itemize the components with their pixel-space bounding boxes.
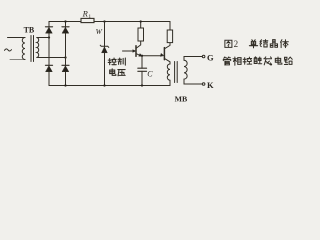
resistor R3 body (167, 30, 172, 43)
resistor R1 body (81, 18, 94, 22)
wire secondary to G terminal (184, 57, 202, 61)
transformer TB primary winding (22, 38, 25, 60)
terminal K circle (202, 83, 205, 86)
svg-text:2: 2 (234, 39, 239, 49)
node capacitor bottom rail dot (141, 84, 143, 86)
node emitter/capacitor junction dot (141, 55, 143, 57)
node top rail / right branch dot (64, 20, 66, 22)
wire R3 to top rail corner (169, 22, 171, 31)
diode D1 upper-left (45, 27, 52, 33)
wire top rail (49, 21, 170, 23)
diode D4 lower-right (62, 65, 69, 71)
capacitor C stem bottom (141, 71, 143, 85)
svg-text:K: K (207, 80, 214, 90)
label control voltage 电压 (110, 69, 126, 76)
capacitor C stem top (141, 56, 143, 68)
label control voltage 控制 (108, 58, 125, 65)
figure caption line 1: 图2 单结晶体 (223, 39, 292, 65)
figure caption line 2: 管相控触发电路 (223, 57, 231, 65)
node zener branch top dot (103, 20, 105, 22)
svg-text:C: C (147, 69, 153, 78)
control voltage arrow to base (123, 50, 134, 52)
node AC1 junction dot (48, 36, 50, 38)
transistor V emitter with arrow (136, 54, 141, 56)
UJT V2 bar (163, 48, 165, 60)
AC source tilde (5, 49, 12, 51)
wire zener branch (104, 22, 106, 86)
wire secondary to K terminal (184, 79, 202, 84)
wire left bridge branch (48, 22, 50, 86)
wire AC2 secondary bottom to right bridge branch (37, 57, 66, 59)
transistor V bar (135, 46, 137, 57)
svg-text:G: G (207, 52, 214, 62)
zener diode W (100, 45, 109, 53)
terminal G circle (202, 55, 205, 58)
wire R2 to top rail (140, 22, 142, 29)
UJT base2 lead (164, 43, 170, 49)
transformer TB primary top lead (8, 37, 26, 39)
transformer TB secondary winding (37, 38, 39, 58)
node R2 top rail dot (140, 20, 142, 22)
transformer TB core (31, 36, 34, 62)
pulse transformer MB primary winding (167, 64, 170, 80)
diode D3 lower-left (45, 65, 52, 71)
svg-text:MB: MB (175, 95, 188, 104)
circuit schematic: UJT phase-control trigger circuit (0, 0, 300, 105)
node AC2 junction dot (64, 56, 66, 58)
pulse transformer MB secondary winding (184, 60, 187, 79)
UJT base1 lead (164, 58, 170, 64)
node bottom rail / right branch dot (64, 84, 66, 86)
resistor R2 body (138, 28, 144, 41)
transistor V collector (136, 41, 141, 48)
capacitor C plates (138, 68, 147, 71)
node zener branch bottom dot (103, 84, 105, 86)
svg-text:W: W (96, 27, 103, 36)
wire MB primary to bottom rail (169, 80, 171, 85)
wire AC1 secondary top to left bridge branch (37, 37, 49, 39)
wire right bridge branch (65, 22, 67, 86)
diode D2 upper-right (62, 27, 69, 33)
wire bottom rail (49, 85, 170, 87)
wire emitter node to UJT emitter (142, 55, 161, 57)
svg-text:TB: TB (24, 25, 35, 34)
pulse transformer MB core (175, 62, 178, 83)
transformer TB primary bottom lead (10, 59, 25, 61)
UJT emitter arrowhead (160, 53, 164, 57)
